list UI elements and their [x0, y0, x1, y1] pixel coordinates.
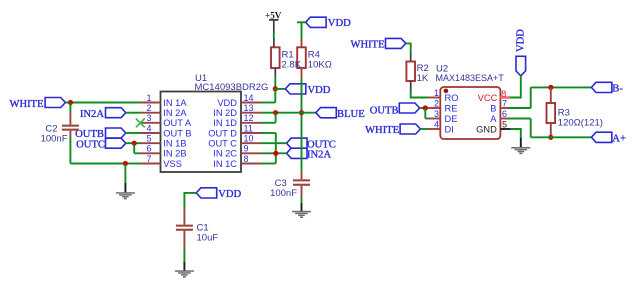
svg-text:OUT D: OUT D	[208, 128, 237, 138]
svg-text:13: 13	[244, 103, 254, 113]
svg-text:10uF: 10uF	[197, 232, 219, 243]
flag B-	[591, 82, 611, 92]
svg-text:4: 4	[434, 119, 439, 129]
flag VDD (R4 top)	[306, 17, 326, 27]
junction R3 top	[548, 85, 553, 90]
svg-text:IN 2A: IN 2A	[163, 108, 187, 118]
junction R3 bottom	[548, 135, 553, 140]
flag WHITE (R2)	[386, 38, 406, 48]
wire pin 14 horizontal	[261, 102, 275, 104]
junction pin5/pin6 tie	[132, 141, 137, 146]
svg-text:MAX1483ESA+T: MAX1483ESA+T	[436, 73, 505, 83]
svg-text:MC14093BDR2G: MC14093BDR2G	[195, 82, 269, 93]
flag OUTC (pin 10)	[287, 138, 307, 148]
wire R4 top to flag corner	[297, 22, 302, 38]
wire RE/DE column	[424, 108, 426, 119]
wire R4 riser	[301, 78, 303, 171]
pin 8 IN 1C (U1 right)	[213, 154, 261, 169]
svg-text:VCC: VCC	[478, 93, 498, 103]
wire B- riser	[530, 87, 532, 108]
svg-text:GND: GND	[476, 124, 497, 134]
wire OUTB flag to pin 4	[126, 132, 141, 134]
svg-text:10: 10	[244, 134, 254, 144]
capacitor C3	[293, 179, 310, 181]
pin 5 GND (U2 right)	[476, 119, 510, 134]
svg-text:5: 5	[146, 134, 151, 144]
wire R1 to VDD node	[274, 78, 276, 89]
wire WHITE flag to pin 4	[420, 128, 428, 130]
junction VSS/ground	[123, 161, 128, 166]
resistor R3 top lead	[550, 87, 552, 103]
no-connect flag pin 3	[136, 119, 145, 128]
junction VDD node (pin 14)	[273, 86, 278, 91]
wire A+ rail	[531, 136, 592, 138]
svg-text:2: 2	[434, 98, 439, 108]
svg-text:3: 3	[434, 109, 439, 119]
wire VSS rail	[70, 163, 125, 165]
pin 9 IN 2C (U1 right)	[213, 144, 261, 159]
svg-text:IN 2D: IN 2D	[213, 108, 237, 118]
resistor R1	[271, 47, 280, 68]
svg-text:VDD: VDD	[308, 85, 331, 96]
svg-text:120Ω(121): 120Ω(121)	[558, 118, 603, 129]
wire pin11-pin8 column	[275, 133, 277, 164]
wire pin 11 horizontal	[261, 132, 276, 134]
junction pin9/column	[273, 151, 278, 156]
svg-text:100nF: 100nF	[41, 133, 68, 144]
pin 6 IN 2B (U1 left)	[141, 144, 187, 159]
svg-text:RE: RE	[445, 103, 458, 113]
wire pin 9 to IN2A flag	[261, 152, 287, 154]
svg-text:12: 12	[244, 113, 254, 123]
svg-text:WHITE: WHITE	[365, 125, 399, 136]
svg-text:WHITE: WHITE	[350, 40, 384, 51]
wire junction to ground	[124, 164, 126, 184]
flag WHITE (pin 1)	[45, 98, 65, 108]
svg-text:1: 1	[146, 93, 151, 103]
resistor R4 bottom lead	[301, 68, 303, 78]
pin 5 IN 1B (U1 left)	[141, 134, 187, 149]
capacitor C1 bottom lead	[183, 231, 185, 248]
flag VDD (pin 14 net)	[285, 84, 305, 94]
ground (VSS)	[116, 192, 135, 194]
flag VDD (U2 pin 8)	[516, 56, 526, 76]
svg-text:DI: DI	[445, 124, 454, 134]
svg-text:6: 6	[502, 109, 507, 119]
pin 1 IN 1A (U1 left)	[141, 93, 188, 108]
pin 6 A (U2 right)	[490, 109, 510, 124]
svg-text:10KΩ: 10KΩ	[308, 60, 332, 71]
wire VDD flag to pin 8	[510, 76, 521, 98]
wire B- rail	[531, 86, 592, 88]
flag OUTB (pin 4)	[106, 128, 126, 138]
svg-text:2: 2	[146, 103, 151, 113]
wire pin13 junction down	[275, 113, 277, 123]
svg-text:BLUE: BLUE	[337, 109, 365, 120]
svg-text:A: A	[490, 114, 497, 124]
ground stem (C3)	[301, 203, 303, 211]
ground stem (VSS)	[124, 183, 126, 193]
IC U1 body	[161, 92, 242, 173]
ground stem (C1)	[183, 262, 185, 271]
wire flag WHITE to node	[65, 102, 70, 104]
capacitor C1	[176, 225, 193, 227]
flag IN2A (pin 9)	[287, 148, 307, 158]
wire +5V to R1	[273, 33, 275, 39]
resistor R4	[297, 47, 306, 68]
svg-text:OUTC: OUTC	[76, 140, 105, 151]
wire to pin 3 DE	[425, 118, 428, 120]
ground (C3)	[292, 211, 311, 213]
pin 2 IN 2A (U1 left)	[141, 103, 188, 118]
pin 11 OUT D (U1 right)	[208, 123, 261, 138]
svg-text:IN 1D: IN 1D	[213, 118, 237, 128]
pin 2 RE (U2 left)	[428, 98, 457, 113]
svg-text:VDD: VDD	[516, 29, 527, 52]
resistor R1 top lead	[273, 38, 275, 47]
pin 14 VDD (U1 right)	[217, 93, 261, 108]
wire C3 to ground	[301, 197, 303, 203]
wire VSS rail to pin 7	[125, 163, 140, 165]
svg-text:IN2A: IN2A	[80, 109, 104, 120]
svg-text:B-: B-	[612, 84, 623, 95]
wire OUTB flag to pin 2	[420, 107, 428, 109]
pin 12 IN 1D (U1 right)	[213, 113, 261, 128]
wire to pin 12	[261, 122, 276, 124]
junction pin13/pin12	[273, 110, 278, 115]
svg-text:OUT A: OUT A	[163, 118, 192, 128]
ground stem (U2)	[520, 138, 522, 148]
wire IN2A flag to pin 2	[126, 112, 141, 114]
svg-text:8: 8	[501, 89, 506, 99]
svg-text:7: 7	[502, 98, 507, 108]
svg-text:OUT B: OUT B	[163, 128, 191, 138]
pin 1 RO (U2 left)	[428, 88, 458, 103]
resistor R2 bottom lead	[410, 81, 412, 91]
wire WHITE flag to R2	[406, 43, 411, 52]
wire pin 10 to OUTC flag	[261, 142, 287, 144]
resistor R4 top lead	[301, 38, 303, 47]
svg-text:DE: DE	[445, 114, 458, 124]
svg-text:IN 1C: IN 1C	[213, 159, 237, 169]
svg-text:14: 14	[244, 93, 254, 103]
svg-text:IN 1A: IN 1A	[163, 98, 187, 108]
capacitor C2 top lead	[69, 112, 71, 125]
wire VDD node down	[274, 89, 276, 103]
capacitor C2	[62, 125, 79, 127]
svg-text:VSS: VSS	[163, 159, 182, 169]
svg-text:100nF: 100nF	[270, 188, 297, 199]
svg-text:8: 8	[244, 154, 249, 164]
svg-text:6: 6	[146, 144, 151, 154]
svg-text:IN 2C: IN 2C	[213, 149, 237, 159]
pin 3 OUT A (U1 left)	[141, 113, 192, 128]
svg-text:VDD: VDD	[217, 98, 237, 108]
svg-text:VDD: VDD	[218, 189, 241, 200]
capacitor C2 bottom lead	[69, 131, 71, 138]
capacitor C3 top lead	[301, 171, 303, 179]
svg-text:WHITE: WHITE	[9, 99, 43, 110]
svg-text:7: 7	[146, 154, 151, 164]
svg-text:RO: RO	[445, 93, 459, 103]
svg-text:3: 3	[146, 113, 151, 123]
pin 7 VSS (U1 left)	[141, 154, 182, 169]
flag IN2A (pin 2)	[106, 108, 126, 118]
flag BLUE (pin 13 net)	[316, 108, 336, 118]
wire OUTC flag to pin 5	[126, 142, 141, 144]
pin 7 B (U2 right)	[490, 98, 510, 113]
wire node to pin 1	[71, 102, 141, 104]
resistor R1 bottom lead	[274, 68, 276, 78]
flag OUTB (U2 pin 2)	[399, 103, 419, 113]
flag VDD (C1)	[196, 188, 216, 198]
svg-text:OUTB: OUTB	[370, 106, 399, 117]
wire to pin 6	[134, 152, 140, 154]
wire pin 6 to riser	[508, 118, 531, 120]
flag OUTC (pins 5,6)	[106, 138, 126, 148]
svg-text:9: 9	[244, 144, 249, 154]
junction R4/BLUE	[299, 110, 304, 115]
svg-text:5: 5	[502, 119, 507, 129]
wire junction down to pin 6 row	[133, 143, 135, 153]
ground (U2)	[511, 147, 530, 149]
wire WHITE node to C2	[69, 103, 71, 113]
svg-text:11: 11	[244, 123, 253, 133]
svg-text:OUT C: OUT C	[208, 139, 237, 149]
resistor R2	[406, 62, 415, 82]
IC U2 body	[440, 87, 500, 139]
svg-text:IN 1B: IN 1B	[163, 139, 186, 149]
wire flag to R4	[302, 21, 306, 23]
pin 10 OUT C (U1 right)	[208, 134, 261, 149]
flag WHITE (U2 pin 4)	[400, 124, 420, 134]
wire pin 8 horizontal	[261, 163, 276, 165]
+5V power symbol	[269, 20, 278, 33]
wire pin 7 to riser	[508, 107, 531, 109]
flag A+	[591, 132, 611, 142]
resistor R3	[547, 103, 556, 123]
wire pin 5 to ground	[510, 129, 520, 138]
svg-text:2.8K: 2.8K	[282, 60, 302, 71]
resistor R3 bottom lead	[550, 123, 552, 137]
wire VDD flag to corner	[184, 193, 196, 209]
junction node WHITE/C2	[68, 100, 73, 105]
svg-text:4: 4	[146, 123, 151, 133]
junction RE/DE tie	[423, 105, 428, 110]
pin 13 IN 2D (U1 right)	[213, 103, 261, 118]
resistor R2 top lead	[410, 53, 412, 62]
svg-text:VDD: VDD	[328, 18, 351, 29]
wire R2 to pin 1	[411, 91, 428, 98]
svg-text:IN2A: IN2A	[307, 149, 331, 160]
wire VDD node to flag	[275, 88, 285, 90]
wire A+ riser	[530, 119, 532, 138]
pin 8 VCC (U2 right)	[478, 89, 510, 103]
svg-text:1: 1	[434, 88, 439, 98]
wire pin 13 to BLUE flag	[261, 112, 316, 114]
capacitor C1 top lead	[183, 208, 185, 224]
wire C2 to VSS rail	[69, 138, 71, 164]
U2 pin 1 marker	[444, 89, 449, 94]
wire C1 to ground	[183, 248, 185, 262]
pin 4 DI (U2 left)	[428, 119, 454, 134]
svg-text:1K: 1K	[417, 73, 429, 84]
pin 4 OUT B (U1 left)	[141, 123, 192, 138]
capacitor C3 bottom lead	[301, 186, 303, 197]
svg-text:A+: A+	[612, 133, 626, 144]
pin 3 DE (U2 left)	[428, 109, 457, 124]
ground (C1)	[175, 270, 194, 272]
svg-text:B: B	[490, 103, 496, 113]
svg-text:IN 2B: IN 2B	[163, 149, 186, 159]
